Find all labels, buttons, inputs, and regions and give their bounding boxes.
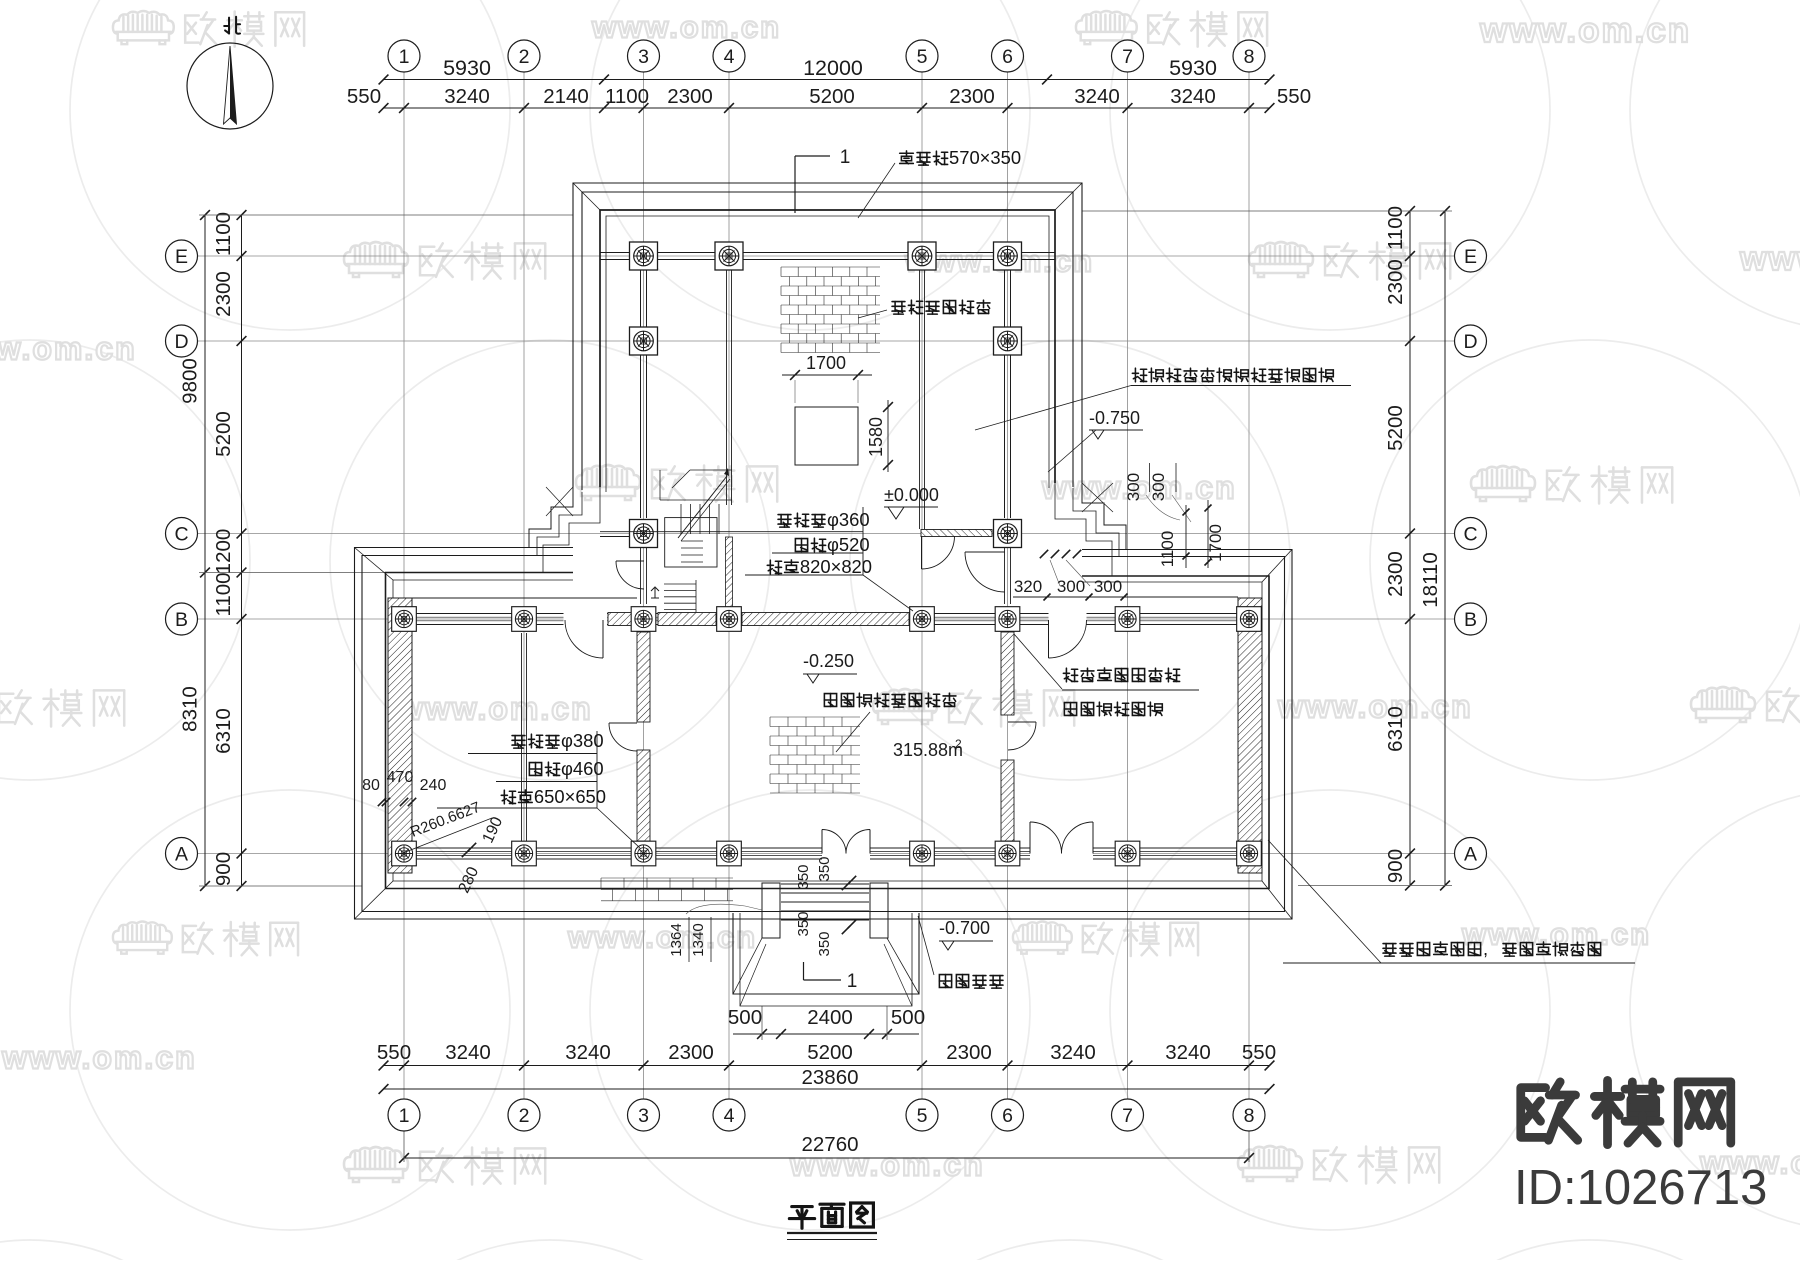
svg-text:3240: 3240 <box>445 1041 491 1064</box>
svg-text:300: 300 <box>1124 473 1143 501</box>
svg-text:1: 1 <box>840 147 851 168</box>
svg-text:315.88m: 315.88m <box>893 740 963 760</box>
svg-text:5: 5 <box>917 46 928 68</box>
svg-text:C: C <box>1463 524 1477 546</box>
svg-text:2300: 2300 <box>1384 551 1407 597</box>
svg-text:820×820: 820×820 <box>800 556 872 577</box>
label R260.6627 <box>403 799 492 853</box>
svg-text:5200: 5200 <box>1384 405 1407 451</box>
grid2 partition wall <box>522 633 527 841</box>
svg-text:2300: 2300 <box>1384 259 1407 305</box>
svg-text:2: 2 <box>955 737 962 751</box>
svg-text:22760: 22760 <box>801 1133 858 1156</box>
svg-text:300: 300 <box>1149 473 1168 501</box>
svg-text:500: 500 <box>728 1006 762 1029</box>
svg-text:1: 1 <box>399 1105 410 1127</box>
small dims 80 470 240 <box>362 769 446 806</box>
svg-text:E: E <box>175 246 188 268</box>
label chisifang brick <box>858 300 990 318</box>
title plan <box>787 1203 877 1240</box>
label huifu taduo <box>918 916 1003 988</box>
door C grid6 <box>965 552 1005 592</box>
double door row A center <box>822 830 870 854</box>
grid axis lines <box>196 70 1456 1100</box>
svg-text:350: 350 <box>795 864 812 889</box>
svg-text:1100: 1100 <box>605 85 649 108</box>
svg-text:6: 6 <box>1002 46 1013 68</box>
C row sill window (hatched) <box>600 530 992 537</box>
dim 1580 <box>866 400 893 472</box>
svg-text:C: C <box>174 524 188 546</box>
right exterior wall (hatched) <box>1238 598 1262 873</box>
grid bubbles bottom <box>388 1099 1265 1131</box>
svg-text:www.om.cn: www.om.cn <box>397 690 593 726</box>
door grid6 wall <box>1008 722 1036 750</box>
label chai chuang block <box>1014 634 1199 716</box>
site logo <box>1514 1080 1767 1215</box>
svg-text:1: 1 <box>399 46 410 68</box>
north wall face lines <box>412 597 1238 598</box>
svg-text:D: D <box>1463 331 1477 353</box>
svg-text:5200: 5200 <box>809 85 855 108</box>
row B beam/sill wall <box>395 611 1258 626</box>
label huifu brick floor <box>824 693 956 752</box>
svg-text:5930: 5930 <box>443 56 491 80</box>
svg-text:23860: 23860 <box>801 1066 858 1089</box>
small dims 350 x4 <box>795 856 856 956</box>
svg-text:4: 4 <box>724 46 735 68</box>
svg-text:3: 3 <box>638 1105 649 1127</box>
svg-text:500: 500 <box>891 1006 925 1029</box>
area 315.88m2 <box>893 737 963 760</box>
door C west <box>616 561 644 589</box>
svg-text:±0.000: ±0.000 <box>884 485 939 505</box>
level +-0.000 <box>884 485 939 519</box>
dim 1700 <box>782 353 872 403</box>
svg-text:350: 350 <box>816 931 833 956</box>
svg-text:2300: 2300 <box>212 271 235 317</box>
svg-text:2140: 2140 <box>543 85 589 108</box>
svg-text:350: 350 <box>816 856 833 881</box>
svg-text:2: 2 <box>519 46 530 68</box>
svg-text:3240: 3240 <box>1074 85 1120 108</box>
transition steps right corner <box>1055 483 1126 576</box>
brick floor upper hall <box>781 267 880 353</box>
svg-text:-0.750: -0.750 <box>1089 408 1140 428</box>
svg-text:www.om.cn: www.om.cn <box>1479 11 1691 50</box>
svg-text:D: D <box>174 331 188 353</box>
svg-text:ID:1026713: ID:1026713 <box>1514 1161 1767 1215</box>
lower hall podium outline <box>355 548 1293 920</box>
staircase block <box>651 468 730 612</box>
svg-text:650×650: 650×650 <box>534 786 606 807</box>
svg-text:7: 7 <box>1122 46 1133 68</box>
level -0.750 <box>1048 408 1143 472</box>
svg-text:-0.700: -0.700 <box>939 918 990 938</box>
left dimension chains <box>179 210 574 891</box>
door row B left <box>565 620 603 658</box>
svg-text:8310: 8310 <box>179 686 202 732</box>
svg-text:-0.250: -0.250 <box>803 651 854 671</box>
svg-text:6310: 6310 <box>1384 706 1407 752</box>
svg-text:300: 300 <box>1094 577 1122 596</box>
svg-text:1364: 1364 <box>668 923 685 956</box>
svg-text:1100: 1100 <box>212 212 235 256</box>
svg-text:550: 550 <box>1277 85 1311 108</box>
upper hall podium outline <box>573 183 1082 492</box>
row bubbles left <box>166 240 198 870</box>
svg-text:3240: 3240 <box>565 1041 611 1064</box>
svg-text:900: 900 <box>1384 849 1407 883</box>
svg-text:2300: 2300 <box>668 1041 714 1064</box>
svg-text:570×350: 570×350 <box>949 147 1021 168</box>
grid5 upper partition <box>920 262 925 529</box>
svg-text:2: 2 <box>519 1105 530 1127</box>
svg-text:18110: 18110 <box>1419 552 1442 607</box>
svg-text:6310: 6310 <box>212 708 235 754</box>
entrance porch steps <box>733 883 919 1006</box>
svg-text:5930: 5930 <box>1169 56 1217 80</box>
svg-text:8: 8 <box>1244 46 1255 68</box>
svg-text:470: 470 <box>387 769 414 786</box>
svg-text:A: A <box>175 844 188 866</box>
small dims 300 300 vertical leaders <box>1124 463 1191 522</box>
svg-text:www.om.cn: www.om.cn <box>591 10 781 45</box>
columns <box>392 242 1262 866</box>
svg-text:12000: 12000 <box>803 56 863 80</box>
row bubbles right <box>1455 240 1487 870</box>
label yanzhu380 block <box>437 730 640 848</box>
svg-text:550: 550 <box>347 85 381 108</box>
svg-text:,: , <box>1483 938 1488 959</box>
svg-text:1700: 1700 <box>1206 524 1225 562</box>
grid4 C-B wall (hatched) <box>726 537 733 607</box>
svg-text:2400: 2400 <box>807 1006 853 1029</box>
bottom dimension chains <box>377 1006 1276 1163</box>
svg-text:240: 240 <box>420 777 447 794</box>
row A beam <box>395 846 1258 861</box>
svg-text:300: 300 <box>1057 577 1085 596</box>
svg-text:www.om.cn: www.om.cn <box>567 920 757 955</box>
svg-text:A: A <box>1464 844 1477 866</box>
svg-text:350: 350 <box>795 911 812 936</box>
grid6 C-B wall line <box>1005 548 1011 604</box>
svg-text:2300: 2300 <box>949 85 995 108</box>
svg-text:1: 1 <box>847 971 858 992</box>
row E beam <box>600 253 1055 260</box>
small dims 190 280 <box>456 814 507 895</box>
svg-text:1580: 1580 <box>866 417 886 457</box>
svg-text:550: 550 <box>377 1041 411 1064</box>
svg-text:3240: 3240 <box>1050 1041 1096 1064</box>
label qingli yuan <box>1268 840 1635 963</box>
door C sill left <box>922 536 955 569</box>
svg-text:1700: 1700 <box>806 353 846 373</box>
stair upper landing lines <box>660 470 732 500</box>
svg-text:B: B <box>1464 609 1477 631</box>
svg-text:80: 80 <box>362 777 380 794</box>
left exterior wall (hatched) <box>388 598 412 873</box>
svg-text:5200: 5200 <box>807 1041 853 1064</box>
door row B right <box>1049 620 1087 658</box>
paving strip south <box>601 878 733 901</box>
svg-text:5200: 5200 <box>212 411 235 457</box>
top dimension chain <box>347 56 1311 113</box>
label jietiaoshi 570x350 <box>858 147 1021 218</box>
svg-text:1100: 1100 <box>1384 206 1407 250</box>
svg-text:3: 3 <box>638 46 649 68</box>
svg-text:3240: 3240 <box>1170 85 1216 108</box>
svg-text:320: 320 <box>1014 577 1042 596</box>
svg-text:1340: 1340 <box>690 923 707 956</box>
svg-text:4: 4 <box>724 1105 735 1127</box>
svg-text:www.om.cn: www.om.cn <box>1739 240 1800 278</box>
svg-text:www.om.cn: www.om.cn <box>0 330 137 366</box>
svg-text:www.om.cn: www.om.cn <box>1 1039 197 1075</box>
svg-text:1100: 1100 <box>212 572 235 616</box>
small dims 320 300 300 <box>1014 550 1128 601</box>
sample square 1700x1580 <box>795 407 858 465</box>
svg-text:900: 900 <box>212 852 235 886</box>
right dimension chains <box>1082 206 1452 890</box>
svg-text:7: 7 <box>1122 1105 1133 1127</box>
level -0.250 <box>803 651 857 683</box>
svg-text:3240: 3240 <box>1165 1041 1211 1064</box>
label yanzhu 360 block <box>600 507 913 611</box>
grid6 partition wall (hatched) <box>1001 632 1014 841</box>
svg-text:6: 6 <box>1002 1105 1013 1127</box>
section mark 1 top <box>795 147 850 213</box>
svg-text:1100: 1100 <box>1158 531 1177 568</box>
svg-text:www.om.cn: www.om.cn <box>1277 688 1473 724</box>
grid3 C-B wall line <box>641 548 647 604</box>
svg-text:2300: 2300 <box>667 85 713 108</box>
svg-text:8: 8 <box>1244 1105 1255 1127</box>
porch section mark 1 <box>804 962 858 992</box>
small dims 1364 1340 <box>668 904 762 962</box>
double door row A east <box>1030 822 1093 854</box>
svg-text:1200: 1200 <box>212 529 235 575</box>
grid3 partition wall (hatched) <box>637 632 650 841</box>
north arrow <box>187 17 273 129</box>
small dims 1100 1700 vertical <box>1158 500 1225 568</box>
svg-text:2300: 2300 <box>946 1041 992 1064</box>
svg-text:550: 550 <box>1242 1041 1276 1064</box>
svg-text:B: B <box>175 609 188 631</box>
svg-text:5: 5 <box>917 1105 928 1127</box>
transition steps left corner <box>529 487 600 573</box>
door grid3 wall <box>609 723 637 751</box>
level -0.700 <box>939 918 993 950</box>
label chuantong wood <box>975 368 1351 430</box>
svg-text:E: E <box>1464 246 1477 268</box>
grid6 upper column line <box>1005 262 1011 518</box>
brick floor lower hall <box>770 717 860 793</box>
svg-text:9800: 9800 <box>179 358 202 404</box>
grid4 upper partition <box>727 262 732 505</box>
grid3 upper column line <box>641 262 647 518</box>
grid bubbles top <box>388 40 1265 72</box>
svg-text:3240: 3240 <box>444 85 490 108</box>
